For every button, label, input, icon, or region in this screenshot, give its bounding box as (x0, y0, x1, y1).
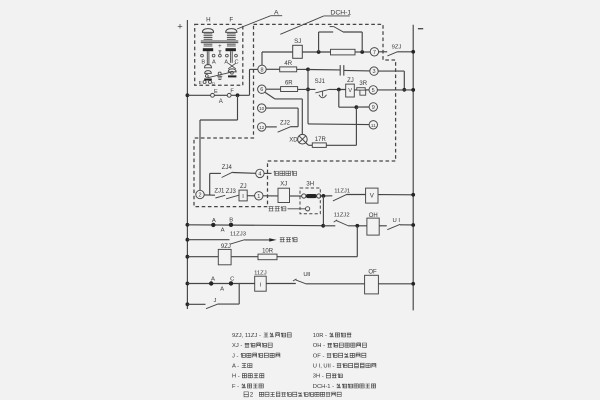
svg-text:11ZJ1: 11ZJ1 (334, 189, 350, 195)
svg-text:2: 2 (198, 192, 201, 198)
button H contact block (203, 48, 213, 51)
wire OF to bus (378, 283, 413, 285)
svg-text:OF: OF (368, 270, 377, 276)
terminal 12 (258, 123, 266, 131)
terminal 1 (255, 192, 263, 200)
svg-text:A: A (211, 277, 215, 283)
button F pivot (231, 71, 234, 74)
wire 4R to junction (297, 68, 308, 70)
svg-text:J: J (214, 298, 217, 304)
wire E to F (214, 94, 227, 96)
svg-text:11: 11 (371, 123, 376, 128)
svg-text:11ZJ: 11ZJ (254, 271, 267, 277)
wire up to terminal 8 (249, 69, 251, 95)
svg-text:D: D (212, 82, 215, 86)
svg-text:V: V (348, 88, 352, 94)
junction to terminal 2 branch (236, 93, 240, 97)
svg-text:DCH-1 -: DCH-1 - (313, 384, 334, 390)
svg-text:4: 4 (258, 171, 261, 177)
wire capacitor to 3 (344, 69, 370, 72)
wire 11ZJ to UII (266, 283, 296, 285)
relay ZJ voltage coil (346, 84, 355, 97)
3H alternate position circle (306, 207, 310, 211)
svg-text:9: 9 (372, 105, 375, 111)
svg-text:10: 10 (259, 106, 265, 111)
svg-text:7: 7 (373, 50, 376, 56)
wire 10R up to OH row (277, 256, 357, 258)
svg-text:DCH-1: DCH-1 (330, 9, 351, 16)
wire 5 to bus (377, 89, 413, 91)
svg-text:XJ: XJ (280, 182, 287, 188)
svg-text:3: 3 (372, 69, 375, 75)
button F crossed contact (228, 63, 236, 69)
svg-text:ZJ1: ZJ1 (214, 188, 225, 194)
minus supply label (418, 28, 423, 30)
right bus − wire (412, 25, 414, 311)
button H lower contact domes (205, 65, 212, 68)
svg-text:ZJ4: ZJ4 (222, 165, 233, 171)
svg-text:ZJ3: ZJ3 (226, 189, 237, 195)
svg-text:9ZJ: 9ZJ (221, 244, 231, 250)
button H cap and spring (202, 29, 213, 33)
button F contact block (226, 48, 236, 51)
3H link dashed box (300, 188, 320, 214)
svg-text:B: B (229, 217, 233, 223)
terminal 11 (369, 121, 377, 129)
wire bus to E (186, 93, 190, 97)
wire 6 to lamp branch (265, 92, 275, 99)
caption figure 2 (244, 392, 248, 397)
svg-text:J -: J - (232, 353, 239, 359)
wire 11ZJ1 to V (346, 194, 365, 196)
bottom terminals E D (203, 81, 206, 84)
svg-text:F: F (229, 17, 233, 24)
svg-text:ZJ: ZJ (347, 78, 354, 84)
svg-text:1: 1 (257, 194, 260, 200)
junction to 10R (355, 224, 359, 228)
terminal 3 (370, 67, 378, 75)
wire vertical junction 8 to 6 to 11 (307, 69, 309, 124)
svg-text:E: E (199, 80, 202, 85)
svg-text:B: B (201, 60, 205, 66)
wire 9 branch down to 17R (355, 107, 357, 145)
svg-text:2: 2 (250, 391, 254, 398)
resistor 4R (280, 67, 297, 72)
svg-text:12: 12 (259, 125, 265, 130)
lever bar (208, 72, 232, 78)
svg-text:E: E (214, 89, 218, 95)
contact J protection (186, 302, 190, 306)
wire 9ZJ to 10R (231, 256, 258, 258)
svg-text:A: A (212, 218, 216, 224)
terminal 6 (258, 85, 266, 93)
wire 1 to XJ (263, 195, 278, 197)
left bus + wire (186, 20, 188, 309)
junction from 3H (321, 224, 325, 228)
wire SJ to resistor (302, 51, 330, 53)
svg-text:SJ1: SJ1 (315, 79, 326, 85)
wire to terminal 11 (308, 123, 369, 126)
svg-text:OF -: OF - (313, 353, 325, 359)
wire ZJ to 1 (247, 195, 254, 197)
svg-text:6: 6 (260, 87, 263, 93)
capacitor plates (339, 65, 341, 76)
centre pivot + spring hatch (218, 72, 221, 75)
wire lamp to 17R (306, 143, 309, 146)
svg-text:11ZJ2: 11ZJ2 (334, 213, 350, 219)
resistor 6R (281, 87, 298, 92)
terminal F (227, 93, 231, 97)
svg-text:8: 8 (260, 67, 263, 73)
svg-text:3H -: 3H - (313, 374, 324, 380)
wire OH to UI (379, 225, 387, 227)
svg-text:3H: 3H (306, 181, 314, 187)
terminal 10 (258, 104, 266, 112)
svg-text:+: + (218, 44, 222, 50)
button B contact dot (229, 223, 233, 227)
svg-text:UII: UII (303, 272, 310, 278)
relay SJ coil (293, 45, 303, 58)
wire 10 to corner (266, 107, 298, 109)
svg-text:U I: U I (393, 218, 401, 224)
svg-text:11ZJ3: 11ZJ3 (230, 231, 247, 237)
voltmeter relay V (366, 188, 378, 203)
wire SJ1 to ZJ coil (329, 88, 346, 90)
button H bottom contact bar (204, 79, 212, 81)
wire row4 from bus (186, 282, 190, 286)
wire down to terminal 2 (237, 95, 239, 120)
wire 6R to SJ1 (298, 88, 316, 90)
terminal E (211, 93, 215, 97)
svg-text:A: A (224, 60, 228, 66)
svg-text:XD: XD (289, 138, 298, 144)
terminal 2 (196, 190, 204, 198)
svg-text:10R -: 10R - (313, 333, 327, 339)
wire button row A B (186, 223, 190, 227)
button H pivot (205, 75, 208, 78)
svg-text:5: 5 (372, 88, 375, 94)
svg-text:A: A (212, 60, 216, 66)
svg-text:9ZJ, 11ZJ -: 9ZJ, 11ZJ - (232, 333, 261, 339)
svg-text:ZJ2: ZJ2 (280, 121, 291, 127)
label to signal (288, 208, 306, 210)
wire F to corner (231, 94, 249, 96)
wire V to bus (378, 194, 413, 196)
contact terminals row (201, 54, 204, 57)
svg-text:3R: 3R (359, 81, 367, 87)
button C contact dot (229, 281, 233, 285)
terminal 9 (369, 103, 377, 111)
button F bottom contact bar (228, 75, 236, 77)
terminal 7 (370, 48, 378, 56)
arrow to signal (269, 238, 276, 241)
svg-text:C: C (230, 276, 235, 282)
svg-text:A -: A - (232, 364, 239, 370)
svg-text:A: A (219, 99, 223, 105)
svg-text:F -: F - (232, 384, 239, 390)
svg-text:U I, UII -: U I, UII - (313, 364, 335, 370)
wire 6 to 6R (266, 88, 280, 90)
svg-text:A: A (220, 286, 224, 292)
svg-text:A: A (221, 228, 225, 234)
label protection acceleration (274, 171, 297, 176)
wire 2 to ZJ1 (204, 194, 215, 196)
wire junction to capacitor (308, 69, 340, 71)
branch to terminal 9 (338, 90, 340, 108)
wire to protection label (264, 172, 271, 174)
svg-text:F: F (230, 88, 234, 94)
button A contact dot (211, 223, 215, 227)
svg-text:4R: 4R (284, 61, 292, 67)
terminal 4 (256, 169, 264, 177)
wire terminal 8 up to SJ (261, 52, 263, 65)
svg-text:+: + (177, 22, 183, 33)
wire XJ to 3H (290, 195, 302, 197)
terminal 8 (258, 65, 266, 73)
button H stem (206, 51, 208, 64)
svg-text:9ZJ: 9ZJ (392, 44, 402, 50)
contact 11ZJ3 (186, 238, 190, 242)
terminal 5 (369, 86, 377, 94)
svg-text:ZJ: ZJ (240, 184, 247, 190)
button A contact dot row4 (209, 281, 213, 285)
button assembly dashed box H/F (195, 24, 243, 85)
svg-text:OH -: OH - (313, 343, 325, 349)
svg-text:6R: 6R (285, 80, 293, 86)
SJ bypass contact branch (318, 32, 320, 52)
svg-text:H: H (206, 17, 210, 24)
svg-text:C: C (234, 60, 238, 66)
wire 3H to 11ZJ1 (321, 195, 332, 197)
svg-text:SJ: SJ (294, 38, 301, 45)
svg-text:H -: H - (232, 374, 240, 380)
button F stem (230, 51, 232, 63)
button F cap and spring (226, 29, 237, 33)
svg-text:17R: 17R (315, 137, 327, 143)
wire 8 to 4R (266, 68, 280, 70)
wire resistor to 7 (355, 51, 370, 53)
wire 3 to bus join (378, 70, 404, 72)
wire down to button row (322, 196, 324, 226)
centre pin (219, 51, 221, 54)
svg-text:XJ -: XJ - (232, 343, 242, 349)
relay 9ZJ coil (186, 255, 190, 259)
DCH-1 dashed outline (194, 24, 396, 206)
charging resistor (331, 49, 356, 55)
button mounting plate (201, 40, 239, 42)
